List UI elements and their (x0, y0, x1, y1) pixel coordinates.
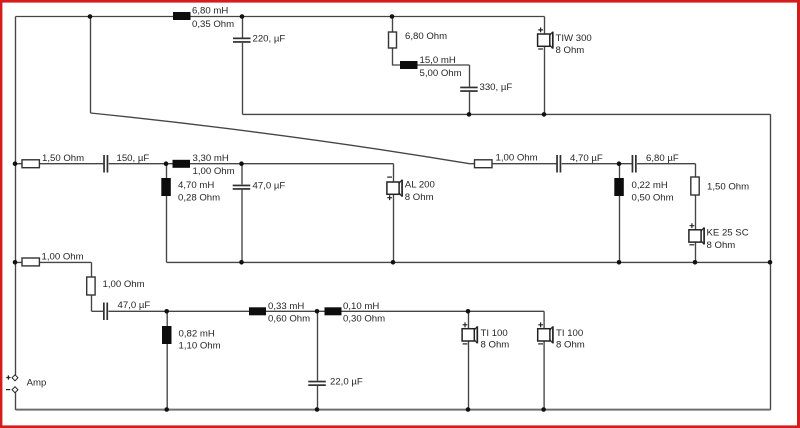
node mid bottom rail x770 (768, 260, 773, 265)
svg-text:Amp: Amp (27, 377, 47, 388)
svg-text:TI 100: TI 100 (481, 328, 508, 339)
node mid bottom rail x240 (239, 260, 244, 265)
wire 22uF lower leg (317, 386, 319, 411)
node bottom rail x317 (315, 407, 320, 412)
wire after 1,00 Ohm to 4,70uF (493, 163, 557, 165)
resistor 1,00 Ohm (series upper branch) (475, 153, 538, 168)
node lower rail x468 (466, 309, 471, 314)
svg-text:6,80 Ohm: 6,80 Ohm (405, 31, 447, 42)
svg-text:6,80 µF: 6,80 µF (646, 153, 679, 164)
svg-text:AL 200: AL 200 (405, 179, 435, 190)
wire bottom rail (16, 409, 771, 411)
speaker TIW 300 (538, 28, 592, 57)
red frame top (0, 0, 800, 3)
node mid bottom rail x619 (617, 260, 622, 265)
svg-text:8 Ohm: 8 Ohm (707, 240, 736, 251)
svg-text:5,00 Ohm: 5,00 Ohm (420, 68, 462, 79)
wire 330uF lower leg (469, 91, 471, 114)
wire 220uF lower leg (242, 43, 244, 115)
wire 1,50 Ohm to KE25SC (695, 195, 697, 230)
wire top rail (16, 16, 545, 18)
node lower rail x166 (164, 309, 169, 314)
inductor 4,70 mH (161, 178, 220, 203)
resistor 6,80 Ohm (389, 31, 448, 48)
svg-text:0,60 Ohm: 0,60 Ohm (268, 313, 310, 324)
svg-text:22,0 µF: 22,0 µF (330, 377, 363, 388)
wire to 47uF bottom (92, 310, 104, 312)
svg-text:1,50 Ohm: 1,50 Ohm (707, 181, 749, 192)
wire diagonal to 1,00 Ohm resistor (470, 163, 476, 165)
inductor 0,10 mH (325, 301, 386, 324)
wire 1,00 Ohm vertical branch (91, 262, 93, 311)
inductor 0,22 mH (614, 178, 673, 204)
wire TI100 1 upper leg (468, 311, 470, 328)
svg-text:47,0 µF: 47,0 µF (253, 180, 286, 191)
resistor 1,00 Ohm (bottom horizontal) (22, 251, 84, 266)
svg-text:TIW 300: TIW 300 (556, 33, 592, 44)
svg-text:1,00 Ohm: 1,00 Ohm (496, 153, 538, 164)
wire 220uF upper leg (242, 17, 244, 38)
wire TIW300 lower leg (544, 46, 546, 114)
svg-text:0,22 mH: 0,22 mH (632, 180, 668, 191)
inductor 15,0 mH (400, 55, 462, 79)
svg-text:KE 25 SC: KE 25 SC (707, 228, 749, 239)
wire 0,22mH leg (619, 164, 621, 263)
svg-text:150, µF: 150, µF (117, 153, 150, 164)
svg-text:15,0 mH: 15,0 mH (420, 55, 456, 66)
capacitor 4,70 uF (556, 153, 603, 173)
wire left vertical (15, 17, 17, 376)
node mid rail x166 (164, 161, 169, 166)
wire mid bottom rail (167, 261, 771, 263)
svg-text:0,35 Ohm: 0,35 Ohm (192, 19, 234, 30)
wire 22uF upper leg (317, 311, 319, 380)
speaker TI 100 (right) (538, 322, 585, 350)
wire TI100 2 upper leg (543, 311, 545, 328)
svg-text:1,10 Ohm: 1,10 Ohm (179, 340, 221, 351)
svg-text:8 Ohm: 8 Ohm (556, 45, 585, 56)
capacitor 6,80 uF (632, 153, 679, 173)
svg-text:3,30 mH: 3,30 mH (193, 153, 229, 164)
wire lower rail after 47uF (108, 310, 544, 312)
node mid rail x15 (13, 161, 18, 166)
wire AL200 upper leg (393, 164, 395, 182)
node top rail x242 (240, 14, 245, 19)
wire diagonal to mid rail (91, 113, 470, 164)
wire tweeter branch down to 1,50 Ohm (695, 164, 697, 177)
svg-text:8 Ohm: 8 Ohm (556, 340, 585, 351)
svg-text:0,28 Ohm: 0,28 Ohm (178, 192, 220, 203)
resistor 1,50 Ohm (tweeter) (691, 177, 749, 195)
wire TI100 2 lower leg (543, 342, 545, 411)
node mid rail x619 (617, 161, 622, 166)
node bottom rail x166 (164, 407, 169, 412)
node mid bottom rail x393 (391, 260, 396, 265)
svg-text:4,70 mH: 4,70 mH (178, 180, 214, 191)
node lower rail x317 (315, 309, 320, 314)
inductor 0,82 mH (162, 326, 221, 351)
inductor 0,33 mH (249, 301, 310, 324)
capacitor 150 uF (103, 153, 149, 173)
capacitor 47,0 uF (mid) (233, 180, 286, 191)
speaker KE 25 SC (689, 223, 749, 251)
svg-text:0,33 mH: 0,33 mH (268, 301, 304, 312)
capacitor 330 uF (460, 82, 512, 93)
svg-text:0,50 Ohm: 0,50 Ohm (632, 193, 674, 204)
wire mid rail after 150uF (109, 163, 394, 165)
svg-text:220, µF: 220, µF (253, 33, 286, 44)
svg-text:1,00 Ohm: 1,00 Ohm (193, 166, 235, 177)
speaker AL 200 (387, 177, 435, 203)
node woofer rail x469 (467, 112, 472, 117)
wire drop to diagonal (90, 17, 92, 114)
wire TI100 1 lower leg (468, 342, 470, 411)
svg-text:1,00 Ohm: 1,00 Ohm (42, 251, 84, 262)
wire 47uF mid lower leg (241, 190, 243, 263)
wire mid rail left (16, 163, 104, 165)
wire between 4,70uF and 6,80uF (562, 163, 632, 165)
wire 6,80 Ohm branch to 15mH (393, 48, 470, 65)
node top rail x90 (88, 14, 93, 19)
wire 1,00 Ohm bottom row (16, 261, 92, 263)
resistor 1,50 Ohm (series mid) (22, 153, 84, 168)
svg-text:1,50 Ohm: 1,50 Ohm (42, 153, 84, 164)
node top rail x392 (390, 14, 395, 19)
wire 6,80 Ohm branch upper (392, 17, 394, 33)
amp terminal plus (6, 375, 18, 381)
svg-text:0,30 Ohm: 0,30 Ohm (343, 313, 385, 324)
capacitor 22,0 uF (308, 377, 363, 388)
node bottom rail x543 (541, 407, 546, 412)
node mid rail x240 (239, 161, 244, 166)
wire KE25SC lower leg (695, 242, 697, 262)
capacitor 220 uF (233, 33, 285, 44)
speaker TI 100 (left) (462, 322, 509, 350)
red frame bottom (0, 425, 800, 428)
svg-text:8 Ohm: 8 Ohm (481, 340, 510, 351)
resistor 1,00 Ohm (bottom vertical) (87, 277, 145, 295)
svg-text:8 Ohm: 8 Ohm (405, 192, 434, 203)
node left vertical x15 y262 (13, 260, 18, 265)
red frame right (797, 0, 800, 428)
wire right vertical (770, 114, 772, 410)
capacitor 47,0 uF (bottom) (103, 300, 150, 320)
inductor 6,80 mH (173, 6, 234, 31)
svg-text:6,80 mH: 6,80 mH (192, 6, 228, 17)
wire 330uF upper leg (469, 65, 471, 87)
inductor 3,30 mH (173, 153, 235, 177)
wire amp minus to bottom rail (15, 392, 17, 410)
red frame left (0, 0, 2, 428)
svg-text:4,70 µF: 4,70 µF (570, 153, 603, 164)
amp terminal minus (6, 387, 18, 393)
wire after 6,80uF to corner (637, 163, 695, 165)
svg-text:1,00 Ohm: 1,00 Ohm (103, 279, 145, 290)
svg-text:TI 100: TI 100 (556, 328, 583, 339)
node woofer rail x544 (542, 112, 547, 117)
svg-text:47,0 µF: 47,0 µF (118, 300, 151, 311)
wire 4,70mH leg (166, 164, 168, 263)
svg-text:0,82 mH: 0,82 mH (179, 328, 215, 339)
svg-text:330, µF: 330, µF (480, 82, 513, 93)
wire TIW300 upper leg (544, 17, 546, 35)
wire woofer bottom rail (243, 113, 771, 115)
node mid bottom rail x695 (693, 260, 698, 265)
wire AL200 lower leg (393, 194, 395, 262)
svg-text:0,10 mH: 0,10 mH (343, 301, 379, 312)
wire 47uF mid upper leg (241, 164, 243, 185)
wire 0,82mH leg (166, 311, 168, 410)
node bottom rail x468 (466, 407, 471, 412)
